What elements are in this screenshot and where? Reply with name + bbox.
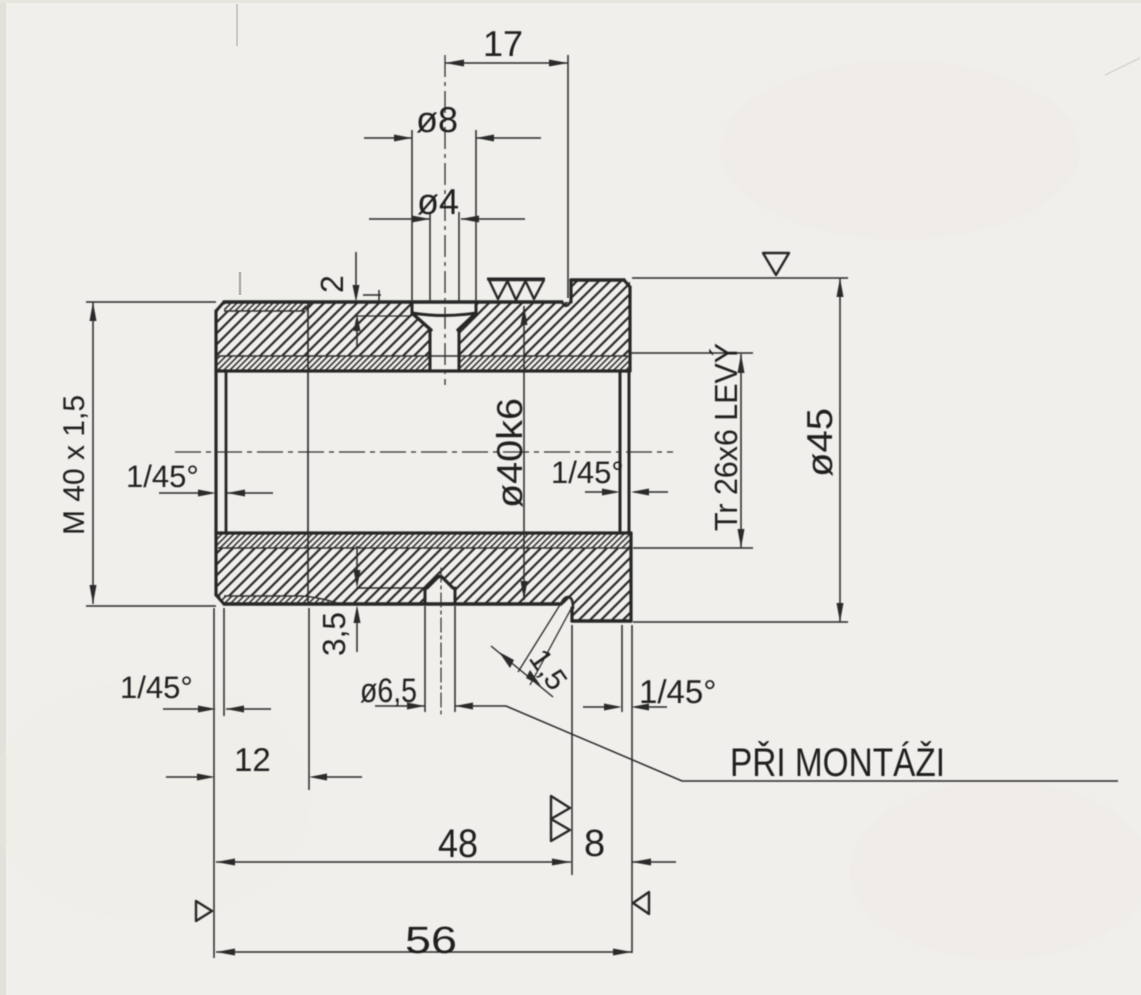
ø8 arrows: [394, 135, 412, 142]
ø6,5 arrows: [407, 703, 425, 710]
dim 2 arrow shafts: [356, 252, 357, 348]
ext lines ø45: [632, 278, 848, 622]
ø40k6 arrows: [521, 306, 528, 325]
top hole axis center line: [444, 55, 446, 385]
dim ø4 lines: [369, 218, 525, 220]
svg-text:Tr 26x6 LEVÝ: Tr 26x6 LEVÝ: [708, 343, 744, 531]
bottom-left M40 fine band: [216, 596, 337, 604]
bore top line: [216, 369, 629, 372]
bottom surface main body: [224, 602, 561, 605]
svg-text:12: 12: [234, 741, 271, 778]
double triangle mark on ext line x=572: [551, 796, 570, 819]
dim M40 line: [92, 302, 94, 604]
bore bottom line: [216, 531, 631, 534]
right face upper: [628, 287, 631, 371]
dim 3,5 arrows: [354, 570, 361, 588]
dim 17 line: [445, 62, 568, 64]
svg-text:1/45°: 1/45°: [120, 670, 193, 705]
step face top: [569, 280, 572, 302]
single triangle mark bottom-left: [196, 901, 212, 921]
svg-text:1/45°: 1/45°: [639, 673, 716, 710]
hole axis center line: [440, 568, 442, 718]
ext lines ø8: [412, 130, 476, 302]
groove 1,5 extension diagonals: [518, 600, 572, 685]
dim 3,5 arrow shafts: [356, 546, 358, 652]
chamfer TL arrows: [198, 490, 216, 497]
left bore mouth chamfer line: [225, 371, 228, 533]
svg-text:2: 2: [314, 275, 350, 293]
ext lines M40: [86, 302, 216, 606]
dim 8 line: [632, 861, 676, 863]
svg-text:PŘI MONTÁŽI: PŘI MONTÁŽI: [730, 741, 945, 785]
svg-text:1/45°: 1/45°: [126, 459, 199, 494]
ext lines 48/8: [572, 625, 632, 953]
right face lower: [629, 533, 632, 621]
dim 56 line: [216, 951, 632, 953]
svg-text:ø8: ø8: [416, 99, 458, 140]
collar top-right chamfer: [624, 280, 630, 287]
ø4 hole walls: [429, 330, 432, 371]
thread undercut groove bottom: [561, 597, 573, 608]
left face: [214, 311, 217, 595]
single triangle mark bottom-right: [633, 892, 649, 914]
dim Tr26 line: [740, 354, 742, 548]
chamfer TR arrows: [602, 489, 620, 496]
Tr26 arrows: [738, 354, 745, 373]
main horizontal axis center line: [175, 451, 673, 453]
tick near dim 2: [363, 290, 381, 302]
recess walls: [411, 302, 414, 312]
top-left chamfer: [216, 302, 224, 311]
dim 48 line: [216, 861, 571, 863]
top surface main body: [224, 300, 562, 303]
svg-text:8: 8: [584, 823, 605, 865]
ext lines ø6,5: [425, 606, 455, 712]
ext lines ø4: [430, 212, 459, 302]
groove 1,5 arrows: [499, 652, 514, 668]
faint smudge marks: [236, 4, 238, 46]
flat bottom reference thin line: [357, 587, 425, 589]
bottom wall main hatch: [216, 548, 631, 621]
Tr26 major dia thin line top: [218, 355, 628, 357]
ext lines left: [214, 608, 224, 958]
M40 minor thin line bottom + runout curve: [224, 596, 337, 603]
dim 2 arrows: [353, 285, 360, 302]
svg-text:1/45°: 1/45°: [551, 455, 624, 490]
ext line 17 right: [567, 55, 569, 298]
chamfer dim top-right: [585, 491, 668, 493]
recess flat reference line: [356, 315, 412, 317]
dim 12 arrows: [197, 774, 215, 781]
thin thread lines: [218, 303, 630, 603]
top-left M40 fine band: [224, 303, 306, 311]
svg-text:ø6,5: ø6,5: [360, 672, 417, 710]
ext lines Tr26: [631, 353, 753, 548]
recess dished bottom: [412, 313, 476, 316]
svg-text:M 40 x 1,5: M 40 x 1,5: [58, 395, 91, 535]
dim 56 arrows: [216, 949, 235, 956]
svg-text:ø45: ø45: [799, 408, 840, 477]
collar bottom surface: [572, 619, 631, 622]
chamfer BL arrows: [198, 706, 216, 713]
svg-text:3,5: 3,5: [316, 612, 352, 656]
step face bottom: [570, 608, 573, 621]
M40 minor thin line top: [224, 303, 310, 311]
dim 8 arrow: [632, 859, 651, 866]
triple triangle finish mark on top surface: [487, 278, 545, 281]
dim ø8 lines: [364, 137, 541, 139]
svg-text:ø40k6: ø40k6: [489, 398, 530, 508]
ø4 arrows: [412, 216, 430, 223]
dim 12 lines: [166, 776, 362, 778]
svg-text:ø4: ø4: [417, 181, 459, 222]
hole walls: [424, 588, 427, 604]
dim ø40k6 line: [523, 306, 525, 600]
ø45 arrows: [837, 278, 844, 297]
ext line x=309 for dim 12: [308, 608, 310, 790]
top wall main hatch: [216, 280, 630, 356]
bottom wall fine thread band (Tr26): [216, 533, 631, 548]
top wall fine thread band (Tr26): [216, 356, 630, 371]
chamfer dim bottom-right: [583, 706, 667, 708]
Tr26 major dia thin line bottom: [218, 547, 630, 549]
drill point dome: [427, 577, 453, 589]
groove 1,5 dim line: [491, 646, 553, 697]
svg-text:48: 48: [438, 822, 478, 866]
M40 arrows: [90, 302, 97, 321]
collar top surface: [571, 278, 624, 281]
bottom-left chamfer: [216, 595, 224, 604]
thread boundary vertical line: [307, 303, 309, 603]
dim ø45 line: [839, 278, 841, 622]
dim ø6,5 lines + leader to text: [375, 706, 1118, 781]
dim 48 arrows: [216, 859, 235, 866]
single triangle mark near ø45: [763, 253, 789, 275]
svg-text:17: 17: [483, 23, 523, 64]
thread undercut groove top: [562, 301, 571, 306]
chamfer dim top-left: [159, 492, 273, 494]
bore end edge lines (seen through bore): [619, 371, 622, 533]
countersink cone: [413, 314, 431, 330]
dim 17 arrows: [445, 60, 464, 67]
chamfer dim bottom-left: [163, 708, 271, 710]
svg-text:56: 56: [405, 920, 457, 962]
chamfer BR arrows: [604, 704, 622, 711]
